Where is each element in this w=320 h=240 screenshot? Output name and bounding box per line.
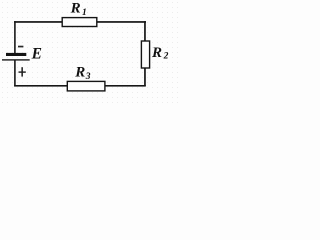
battery E: negative plate (short thick)	[6, 53, 26, 56]
resistor R2 (right)	[141, 41, 149, 68]
wire left lower (battery bottom plate down to bottom corner)	[14, 60, 16, 86]
svg-text:R: R	[70, 1, 81, 17]
svg-text:2: 2	[163, 52, 169, 62]
resistor R1 (top)	[62, 18, 97, 27]
svg-text:R: R	[74, 64, 85, 80]
battery minus sign	[18, 46, 23, 48]
background	[0, 0, 182, 105]
svg-text:3: 3	[85, 72, 91, 82]
battery plus sign	[19, 67, 26, 76]
svg-text:R: R	[151, 45, 162, 61]
wire bottom	[14, 85, 146, 87]
svg-text:1: 1	[82, 8, 87, 18]
resistor R3 (bottom)	[67, 81, 105, 91]
wire left upper (top corner down to battery top plate)	[14, 21, 16, 54]
wire right vertical	[144, 21, 146, 86]
battery E: positive plate (long thin)	[2, 59, 30, 60]
wire top (left corner to right corner)	[14, 21, 146, 23]
svg-text:E: E	[31, 46, 42, 63]
